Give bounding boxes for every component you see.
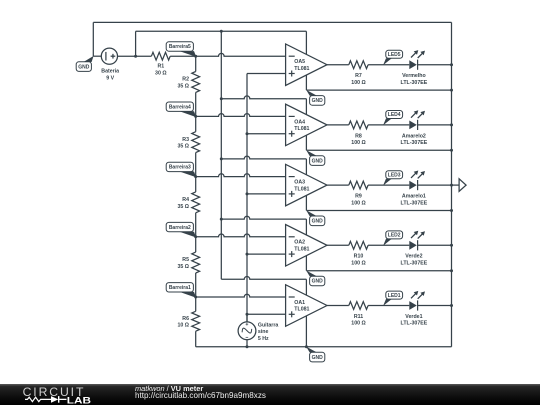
- resistor R9 100 ohm: [349, 181, 368, 189]
- svg-text:LAB: LAB: [67, 395, 92, 405]
- wire ladder bottom corner: [195, 346, 197, 348]
- op-amp OA5 TL081: [286, 44, 327, 85]
- svg-text:100 Ω: 100 Ω: [351, 140, 365, 146]
- wire V- pin OA4: [305, 135, 307, 150]
- wire inverting input OA5 from Barreira5: [196, 53, 286, 56]
- resistor R8 100 ohm: [349, 121, 368, 129]
- resistor R4 35 ohm ladder: [192, 177, 200, 237]
- wire inverting input OA2 from Barreira2: [196, 234, 286, 237]
- svg-text:Verde2: Verde2: [405, 254, 422, 260]
- wire R9 to LED3: [368, 184, 409, 186]
- svg-text:35 Ω: 35 Ω: [177, 264, 189, 270]
- svg-text:35 Ω: 35 Ω: [177, 83, 189, 89]
- wire V- pin OA3: [305, 195, 307, 210]
- wire ground return OA3: [306, 210, 451, 212]
- wire R10 to LED2: [368, 244, 409, 246]
- svg-text:GND: GND: [78, 64, 90, 70]
- svg-text:Guitarra: Guitarra: [258, 323, 279, 329]
- wire V+ feed to OA2: [221, 216, 306, 219]
- svg-text:LTL-307EE: LTL-307EE: [401, 80, 428, 86]
- LED LED1 Verde1: [409, 291, 425, 311]
- label OA3 TL081: [294, 180, 309, 193]
- svg-text:GND: GND: [312, 279, 324, 285]
- label Amarelo2 LTL-307EE: [401, 133, 428, 146]
- label R11 value: [351, 314, 365, 327]
- wire ground return OA4: [306, 149, 451, 151]
- wire non-inverting input OA1: [247, 313, 286, 315]
- svg-text:R4: R4: [182, 197, 189, 203]
- svg-text:R2: R2: [182, 77, 189, 83]
- junction OA1 ground at bottom rail: [305, 345, 308, 348]
- wire LED3 cathode to ground rail: [418, 184, 452, 186]
- label R8 value: [351, 133, 365, 146]
- svg-text:Vermelho: Vermelho: [402, 73, 426, 79]
- svg-text:GND: GND: [312, 219, 324, 225]
- junction signal bus tap OA4: [246, 132, 249, 135]
- svg-text:OA2: OA2: [294, 240, 305, 246]
- junction signal bus tap OA3: [246, 192, 249, 195]
- label R6 value: [177, 316, 189, 329]
- CircuitLab logo: [0, 384, 110, 405]
- wire V- pin OA5: [305, 75, 307, 90]
- svg-text:R1: R1: [157, 64, 164, 70]
- svg-text:LED1: LED1: [388, 293, 401, 299]
- svg-text:R3: R3: [182, 137, 189, 143]
- wire LED2 cathode to ground rail: [418, 244, 452, 246]
- label Vermelho LTL-307EE: [401, 73, 428, 86]
- resistor R5 35 ohm ladder: [192, 237, 200, 297]
- wire signal bus from source: [246, 74, 248, 323]
- svg-text:Barreira2: Barreira2: [169, 225, 191, 231]
- wire R8 to LED4: [368, 124, 409, 126]
- junction V+ bus at V+ rail: [220, 30, 223, 33]
- footer bar: [0, 384, 540, 405]
- op-amp OA4 TL081: [286, 104, 327, 145]
- wire output OA3: [327, 184, 349, 186]
- svg-text:LTL-307EE: LTL-307EE: [401, 261, 428, 267]
- ground flag GND below OA2: [306, 271, 317, 277]
- junction battery node: [134, 55, 137, 58]
- svg-text:100 Ω: 100 Ω: [351, 200, 365, 206]
- resistor R3 35 ohm ladder: [192, 116, 200, 176]
- svg-text:30 Ω: 30 Ω: [155, 70, 167, 76]
- ground flag GND below OA4: [306, 150, 317, 156]
- wire V- pin OA1: [305, 316, 307, 347]
- svg-text:R5: R5: [182, 257, 189, 263]
- wire V+ distribution bus: [220, 31, 222, 279]
- ground flag GND below OA1: [306, 347, 317, 353]
- junction V+ bus feed OA2: [220, 218, 223, 221]
- resistor R2 35 ohm ladder: [192, 56, 200, 116]
- wire V- pin OA2: [305, 256, 307, 271]
- voltage source V2 Guitarra sine 5 Hz: [238, 313, 256, 347]
- label R1 30 ohm value: [155, 64, 167, 77]
- label Guitarra sine 5 Hz: [258, 323, 279, 342]
- label OA5 TL081: [294, 59, 309, 72]
- wire battery positive riser: [135, 31, 137, 56]
- wire right ground rail vertical: [451, 22, 453, 346]
- wire V+ pin OA2: [305, 219, 307, 235]
- svg-text:R7: R7: [355, 73, 362, 79]
- svg-text:35 Ω: 35 Ω: [177, 144, 189, 150]
- flag label LED2: [383, 239, 392, 246]
- svg-text:OA4: OA4: [294, 119, 305, 125]
- svg-text:R10: R10: [354, 254, 364, 260]
- wire non-inverting input OA5: [247, 73, 286, 75]
- svg-text:OA5: OA5: [294, 59, 305, 65]
- svg-text:Barreira4: Barreira4: [169, 104, 191, 110]
- label R9 value: [351, 194, 365, 207]
- svg-text:GND: GND: [312, 98, 324, 104]
- wire V+ feed to OA4: [221, 96, 306, 99]
- node flag Barreira3: [180, 172, 197, 178]
- svg-text:TL081: TL081: [294, 126, 309, 132]
- wire output OA1: [327, 305, 349, 307]
- flag label LED3: [383, 179, 392, 186]
- LED LED2 Verde2: [409, 231, 425, 251]
- LED LED3 Amarelo1: [409, 171, 425, 191]
- ground flag GND at battery: [84, 56, 94, 62]
- resistor R11 100 ohm: [349, 302, 368, 310]
- svg-text:TL081: TL081: [294, 307, 309, 313]
- svg-text:LTL-307EE: LTL-307EE: [401, 200, 428, 206]
- wire V+ pin OA4: [305, 99, 307, 115]
- node flag Barreira5: [180, 51, 197, 57]
- junction ladder node Barreira3: [194, 175, 197, 178]
- label OA1 TL081: [294, 300, 309, 313]
- wire bottom ground rail: [196, 346, 452, 348]
- wire inverting input OA1 from Barreira1: [196, 294, 286, 297]
- LED LED4 Amarelo2: [409, 110, 425, 130]
- label R5 value: [177, 257, 189, 270]
- junction ground rail return 4: [450, 149, 453, 152]
- wire V+ rail: [136, 30, 307, 32]
- svg-text:TL081: TL081: [294, 186, 309, 192]
- resistor R1 30 ohm: [151, 52, 195, 60]
- wire ground return OA2: [306, 270, 451, 272]
- wire non-inverting input OA3: [247, 193, 286, 195]
- svg-text:OA3: OA3: [294, 180, 305, 186]
- LED LED5 Vermelho: [409, 50, 425, 70]
- svg-text:Bateria: Bateria: [101, 68, 119, 74]
- svg-text:Verde1: Verde1: [405, 314, 422, 320]
- label Bateria 9 V: [101, 68, 119, 81]
- resistor R6 10 ohm ladder: [192, 297, 200, 347]
- svg-text:Barreira5: Barreira5: [169, 44, 191, 50]
- svg-text:sine: sine: [258, 329, 269, 335]
- junction ground rail row 3: [450, 184, 453, 187]
- label Amarelo1 LTL-307EE: [401, 194, 428, 207]
- svg-text:LED2: LED2: [388, 233, 401, 239]
- label R4 value: [177, 197, 189, 210]
- wire to output terminal: [452, 184, 460, 186]
- wire inverting input OA4 from Barreira4: [196, 114, 286, 117]
- svg-text:10 Ω: 10 Ω: [177, 323, 189, 329]
- svg-text:R9: R9: [355, 194, 362, 200]
- svg-text:TL081: TL081: [294, 247, 309, 253]
- op-amp OA3 TL081: [286, 164, 327, 206]
- wire top ground rail: [93, 21, 451, 23]
- svg-text:LED3: LED3: [388, 172, 401, 178]
- svg-text:Barreira1: Barreira1: [169, 285, 191, 291]
- label Verde2 LTL-307EE: [401, 254, 428, 267]
- junction ladder node Barreira2: [194, 235, 197, 238]
- label R7 value: [351, 73, 365, 86]
- flag label LED4: [383, 118, 392, 125]
- op-amp OA1 TL081: [286, 285, 327, 327]
- svg-text:GND: GND: [312, 158, 324, 164]
- junction ground rail return 2: [450, 269, 453, 272]
- svg-text:Amarelo1: Amarelo1: [402, 194, 426, 200]
- label OA4 TL081: [294, 119, 309, 132]
- junction ground rail row 2: [450, 244, 453, 247]
- wire LED5 cathode to ground rail: [418, 64, 452, 66]
- svg-text:100 Ω: 100 Ω: [351, 80, 365, 86]
- wire ground return OA5: [306, 89, 451, 91]
- svg-text:5 Hz: 5 Hz: [258, 336, 269, 342]
- wire output OA2: [327, 244, 349, 246]
- junction source bottom at ground rail: [246, 345, 249, 348]
- label R10 value: [351, 254, 365, 267]
- junction ground rail return 3: [450, 209, 453, 212]
- wire V+ feed to OA3: [221, 156, 306, 159]
- wire left ground drop to battery: [92, 22, 94, 56]
- junction V+ bus feed OA4: [220, 97, 223, 100]
- svg-text:100 Ω: 100 Ω: [351, 261, 365, 267]
- ground flag GND below OA5: [306, 90, 317, 96]
- junction signal bus tap OA2: [246, 253, 249, 256]
- ground flag GND below OA3: [306, 210, 317, 216]
- wire R7 to LED5: [368, 64, 409, 66]
- label R3 value: [177, 137, 189, 150]
- resistor R7 100 ohm: [349, 61, 368, 69]
- svg-text:LED5: LED5: [388, 52, 401, 58]
- svg-text:100 Ω: 100 Ω: [351, 321, 365, 327]
- flag label LED5: [383, 58, 392, 65]
- label OA2 TL081: [294, 240, 309, 253]
- label Verde1 LTL-307EE: [401, 314, 428, 327]
- label R2 value: [177, 77, 189, 90]
- junction ladder node Barreira1: [194, 296, 197, 299]
- wire LED4 cathode to ground rail: [418, 124, 452, 126]
- junction ground rail row 4: [450, 123, 453, 126]
- node flag Barreira2: [180, 232, 197, 238]
- wire non-inverting input OA4: [247, 133, 286, 135]
- junction ground rail row 1: [450, 304, 453, 307]
- wire output OA5: [327, 64, 349, 66]
- wire V+ pin OA1: [305, 279, 307, 295]
- junction ladder node Barreira5: [194, 55, 197, 58]
- junction V+ bus feed OA3: [220, 157, 223, 160]
- svg-text:35 Ω: 35 Ω: [177, 204, 189, 210]
- svg-text:Barreira3: Barreira3: [169, 165, 191, 171]
- battery V1 Bateria 9V: [93, 48, 151, 64]
- svg-text:OA1: OA1: [294, 300, 305, 306]
- svg-text:9 V: 9 V: [106, 75, 114, 81]
- wire non-inverting input OA2: [247, 253, 286, 255]
- svg-text:GND: GND: [312, 355, 324, 361]
- node flag Barreira4: [180, 111, 197, 117]
- svg-text:LED4: LED4: [388, 112, 401, 118]
- resistor R10 100 ohm: [349, 241, 368, 249]
- wire LED1 cathode to ground rail: [418, 305, 452, 307]
- svg-text:R6: R6: [182, 316, 189, 322]
- wire V+ pin OA5: [305, 31, 307, 54]
- junction signal bus tap OA1: [246, 313, 249, 316]
- junction ladder node Barreira4: [194, 115, 197, 118]
- svg-text:Amarelo2: Amarelo2: [402, 133, 426, 139]
- footer credit text: [135, 385, 203, 392]
- node flag Barreira1: [180, 292, 197, 298]
- svg-text:R11: R11: [354, 314, 363, 320]
- junction ground rail return 5: [450, 89, 453, 92]
- svg-text:TL081: TL081: [294, 66, 309, 72]
- op-amp OA2 TL081: [286, 225, 327, 266]
- wire V+ pin OA3: [305, 159, 307, 175]
- junction ground rail row 5: [450, 63, 453, 66]
- svg-text:R8: R8: [355, 133, 362, 139]
- flag label LED1: [383, 299, 392, 306]
- footer url: [135, 392, 266, 400]
- wire inverting input OA3 from Barreira3: [196, 174, 286, 177]
- output terminal arrow: [459, 179, 466, 192]
- wire V+ feed to OA1: [221, 277, 306, 280]
- wire output OA4: [327, 124, 349, 126]
- wire R11 to LED1: [368, 305, 409, 307]
- svg-text:LTL-307EE: LTL-307EE: [401, 140, 428, 146]
- svg-text:LTL-307EE: LTL-307EE: [401, 321, 428, 327]
